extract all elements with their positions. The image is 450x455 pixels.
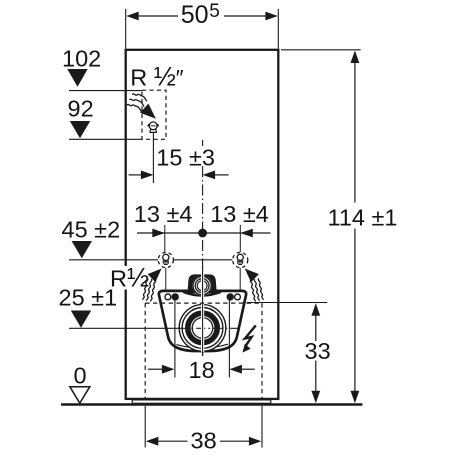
- drain crosshair horizontal: [179, 327, 238, 329]
- dimension 114 ±1 (right height): [281, 50, 397, 404]
- svg-text:5: 5: [209, 1, 220, 22]
- electrical connection lightning bolt: [245, 325, 256, 346]
- plinth: [132, 400, 271, 403]
- drain outlet circles: [179, 305, 226, 352]
- left water connection wavy lines: [142, 278, 155, 302]
- left water connection arrow: [148, 269, 162, 283]
- svg-text:0: 0: [74, 363, 87, 389]
- level line 45 ±2: [62, 216, 233, 259]
- screw hole right inner (filled): [227, 293, 234, 300]
- screw hole left outer: [165, 294, 171, 300]
- svg-text:92: 92: [68, 95, 94, 121]
- floor line: [61, 403, 362, 406]
- dimension 18: [148, 357, 255, 383]
- dimension 15 ±3: [129, 144, 229, 179]
- water stop tap symbol (top): [148, 122, 158, 132]
- svg-text:50: 50: [181, 1, 209, 29]
- svg-text:102: 102: [62, 45, 101, 71]
- dimension 38 (bottom): [146, 427, 262, 453]
- water supply wavy lines (top): [127, 94, 147, 112]
- svg-text:45 ±2: 45 ±2: [62, 216, 121, 242]
- water supply arrow (top): [140, 104, 156, 119]
- bracket inner bottom arc: [177, 344, 229, 348]
- panel (module front view): [126, 50, 279, 399]
- level line 102: [62, 45, 142, 90]
- svg-text:13 ±4: 13 ±4: [134, 201, 193, 227]
- level line 25 ±1 reference line: [69, 327, 179, 329]
- R1/2 label (left water connection): [108, 266, 147, 290]
- svg-text:15 ±3: 15 ±3: [156, 144, 215, 170]
- svg-text:18: 18: [189, 357, 215, 383]
- svg-text:33: 33: [305, 338, 331, 364]
- anchor bolt right (dashed circle + screw glyph): [233, 252, 248, 267]
- tap extension line down: [152, 133, 154, 184]
- screw hole right outer: [235, 294, 241, 300]
- flush pipe housing: [187, 274, 216, 293]
- level line 92: [68, 95, 143, 139]
- dimension 33 (right lower height): [247, 303, 331, 404]
- 38 extension lines below floor: [144, 406, 146, 448]
- drain crosshair vertical (with white channel): [201, 268, 204, 353]
- dimension 50 (top width): [126, 1, 279, 49]
- anchor bolt left (dashed circle + screw glyph): [158, 252, 173, 267]
- right water connection wavy lines: [250, 278, 263, 302]
- right water connection arrow: [245, 269, 259, 283]
- dimension 13 ±4 (left and right): [134, 201, 271, 252]
- centerline (vertical axis): [202, 140, 204, 146]
- svg-text:38: 38: [191, 427, 217, 450]
- svg-text:114 ±1: 114 ±1: [328, 205, 398, 231]
- level line 25 ±1: [59, 284, 118, 328]
- level line 0 (floor): [70, 363, 90, 404]
- bolt extension lines down to bracket plate: [165, 268, 167, 291]
- WC bracket body: [159, 291, 246, 351]
- svg-text:R ½″: R ½″: [130, 61, 184, 91]
- 18 extension lines from screws: [174, 301, 176, 378]
- screw hole left inner (filled): [172, 293, 179, 300]
- svg-text:13 ±4: 13 ±4: [210, 201, 269, 227]
- water supply dashed box: [142, 90, 166, 139]
- svg-text:R½: R½: [110, 262, 149, 292]
- dashed opening rectangle: [145, 303, 262, 399]
- flush pipe rings: [192, 276, 212, 296]
